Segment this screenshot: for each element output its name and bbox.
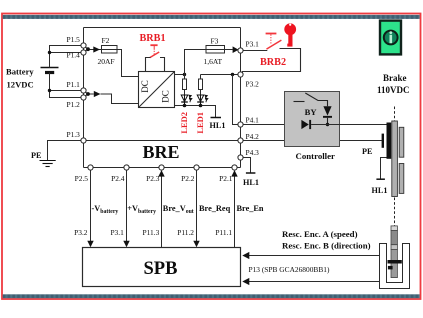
junction dot battery top [48,51,51,54]
wire BRB1 contacts to DC/DC top [146,58,165,72]
LED2 diode [181,95,188,106]
svg-text:F3: F3 [211,37,219,46]
terminal P1.2 [81,95,86,100]
switch BRB1 actuator [150,45,157,54]
diode series horizontal [301,120,311,129]
encoder shaft [391,226,397,278]
svg-text:P3.2: P3.2 [246,80,260,89]
arrow to DC/DC [94,91,101,97]
wire P4.2 to brake PE [243,140,382,142]
controller switch blade [305,93,327,106]
wire F2 to DC/DC input 1 [117,50,139,77]
svg-text:DC: DC [140,80,150,93]
ground PE symbol [40,161,56,167]
wire to fuse F3 [185,50,207,75]
svg-text:Battery: Battery [6,66,34,76]
wire P3.1 to BRB2 [243,50,267,52]
brake disc bar 3 [399,164,404,194]
svg-text:+Vbattery: +Vbattery [127,204,156,215]
lamp HL1 BRE bar [246,172,256,174]
wire battery negative to P1.1/P1.2 [50,73,82,98]
terminal circles left bus [81,43,243,170]
wire diode to brake [311,124,387,126]
svg-text:P3.2: P3.2 [74,228,88,237]
svg-text:LED2: LED2 [179,112,189,134]
fuse F3 [206,46,225,54]
svg-text:P4.1: P4.1 [246,115,260,124]
wire F3 to P3.1 [225,49,233,51]
box SPB [83,248,241,287]
arrow into F2 [93,46,100,52]
wire P4.3 to HL1 [243,158,250,173]
switch BRB2 actuator [266,34,277,45]
diode BY vertical [323,106,332,118]
resistor R1 (LED1) [199,75,203,96]
frame blue bar top [3,15,420,19]
signal line 5 Bre_En with up arrow [234,176,236,248]
signal line 1 -Vbattery [90,170,92,242]
signal line 4 Bre_Req [196,170,198,242]
brake disc bar 2 [399,127,404,157]
dashed shaft bottom [394,198,396,226]
svg-text:P1.3: P1.3 [67,130,81,139]
signal line 2 +Vbattery [126,170,128,242]
terminal P4.1 [238,122,243,127]
LED1 emission arrows [205,95,208,102]
wire node B down to P4.1 [233,75,239,125]
wire left bus P1 [83,28,85,168]
wire BRE top line [84,140,241,142]
svg-text:P11.2: P11.2 [177,228,194,237]
inspection green button [380,21,401,55]
wire brake to HL1 [381,158,387,179]
svg-text:1,6AT: 1,6AT [204,57,223,66]
svg-text:P2.1: P2.1 [219,174,233,183]
svg-text:P3.1: P3.1 [246,40,260,49]
junction dot battery bottom [48,89,51,92]
junction dot LED1 bottom [199,104,203,108]
svg-text:P3.1: P3.1 [110,228,124,237]
junction dot LED2 bottom [183,104,187,108]
wire DC/DC out top rail A [175,74,185,76]
svg-text:PE: PE [31,151,42,160]
junction dot P1.1/P1.2 [86,92,90,96]
terminal P4.2 [238,138,243,143]
svg-text:BRB2: BRB2 [260,57,286,68]
terminal P3.2 [238,72,243,77]
brake coil black bar [387,123,392,159]
svg-text:BY: BY [305,107,318,117]
wire right bus P3/P4 [240,28,242,168]
LED2 emission arrows [189,95,192,102]
wire top rail of enclosure [84,27,241,29]
svg-text:P2.3: P2.3 [146,174,160,183]
junction dot P1.5/P1.4 [86,47,90,51]
svg-text:110VDC: 110VDC [377,85,410,95]
svg-text:P4.2: P4.2 [246,132,260,141]
junction dot rail A [183,73,186,76]
lamp HL1 brake bar [376,178,385,180]
terminal P1.1 [81,88,86,93]
switch BRB2 blade [267,40,282,49]
terminal P3.1 [238,48,243,53]
terminal P2.5 [88,165,93,170]
terminal P1.3 [81,138,86,143]
svg-text:Bre_Vout: Bre_Vout [163,204,194,215]
junction dot controller [326,123,329,126]
inspection button circle [384,31,398,45]
encoder coupling small block [388,266,393,270]
wire BRE bottom line [84,167,241,169]
wire P1.3 to PE ground [48,141,82,161]
encoder cup [380,244,410,289]
svg-text:Resc. Enc. A (speed): Resc. Enc. A (speed) [282,229,358,239]
wire rail B LED1 top to P3.2 [201,74,239,76]
LED1 diode [197,95,204,106]
key BRB2 icon [284,23,296,46]
brake disc bar 1 [392,121,398,197]
encoder coupling black bar [388,260,402,264]
terminal P2.4 [124,165,129,170]
signal line 3 Bre_Vout with up arrow [161,176,163,248]
frame blue bar bottom [3,294,420,298]
svg-text:LED1: LED1 [195,112,205,134]
terminal P2.2 [194,165,199,170]
junction dot rail B [231,73,234,76]
arrow into P3.1 [233,46,239,53]
terminal P2.1 [232,165,237,170]
terminal P4.3 [238,155,243,160]
wire P4.1 to controller [243,124,301,126]
terminal P2.3 [159,165,164,170]
wire battery positive to P1.5/P1.4 [50,46,82,68]
svg-text:12VDC: 12VDC [7,79,34,89]
svg-text:Bre_Req: Bre_Req [199,204,231,213]
inspection button i glyph [390,35,393,43]
wire BRB2 return to P3.2 [242,49,300,73]
brake PE plate [382,134,384,148]
svg-text:P1.4: P1.4 [67,50,81,59]
wire P1.5/P1.4 join to fuse F2 [86,47,101,51]
svg-text:SPB: SPB [144,259,178,279]
switch BRB1 blade [150,52,159,58]
svg-text:HL1: HL1 [372,186,388,195]
wire arrow to DC/DC input 2 [101,94,139,104]
dashed shaft top [394,107,396,121]
svg-text:BRB1: BRB1 [140,33,166,44]
svg-text:Brake: Brake [383,73,407,83]
svg-text:HL1: HL1 [243,178,259,187]
fuse F2 [102,46,118,54]
svg-text:20AF: 20AF [98,57,115,66]
svg-text:-Vbattery: -Vbattery [92,204,119,215]
svg-text:P1.5: P1.5 [67,35,81,44]
svg-text:F2: F2 [102,36,110,45]
svg-text:Controller: Controller [296,151,336,161]
converter DC/DC U1 [139,72,175,108]
svg-text:P11.3: P11.3 [143,228,160,237]
svg-text:Bre_En: Bre_En [237,204,264,213]
wire bottom rail from DC/DC [175,106,216,118]
controller box [285,92,340,147]
battery B1 [41,68,59,73]
svg-text:BRE: BRE [143,142,180,162]
encoder line A [249,255,380,257]
lamp HL1 bar [211,117,222,119]
svg-text:DC: DC [161,90,171,103]
controller switch fixed contact [294,101,305,103]
svg-text:P1.2: P1.2 [67,100,81,109]
svg-text:PE: PE [362,147,373,156]
terminal P1.4 [81,50,86,55]
svg-text:P11.1: P11.1 [215,228,232,237]
svg-text:P2.4: P2.4 [111,174,125,183]
svg-text:P1.1: P1.1 [67,80,81,89]
wire P1.1/P1.2 join [86,92,94,96]
svg-text:P4.3: P4.3 [246,148,260,157]
svg-text:Resc. Enc. B (direction): Resc. Enc. B (direction) [282,241,371,251]
resistor R2 (LED2) [183,75,187,96]
encoder line B [249,281,380,283]
svg-text:P13 (SPB GCA26800BB1): P13 (SPB GCA26800BB1) [249,265,330,274]
terminal P1.5 [81,43,86,48]
svg-text:P2.2: P2.2 [181,174,195,183]
svg-text:HL1: HL1 [210,121,226,130]
svg-text:P2.5: P2.5 [75,174,89,183]
